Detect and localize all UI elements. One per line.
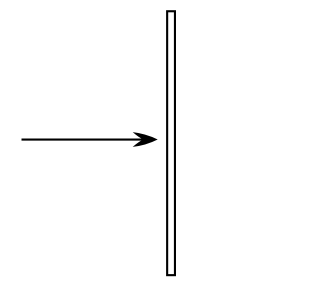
wire (arrow shaft)	[22, 139, 147, 141]
wall plate	[167, 11, 175, 275]
arrowhead	[133, 132, 158, 147]
